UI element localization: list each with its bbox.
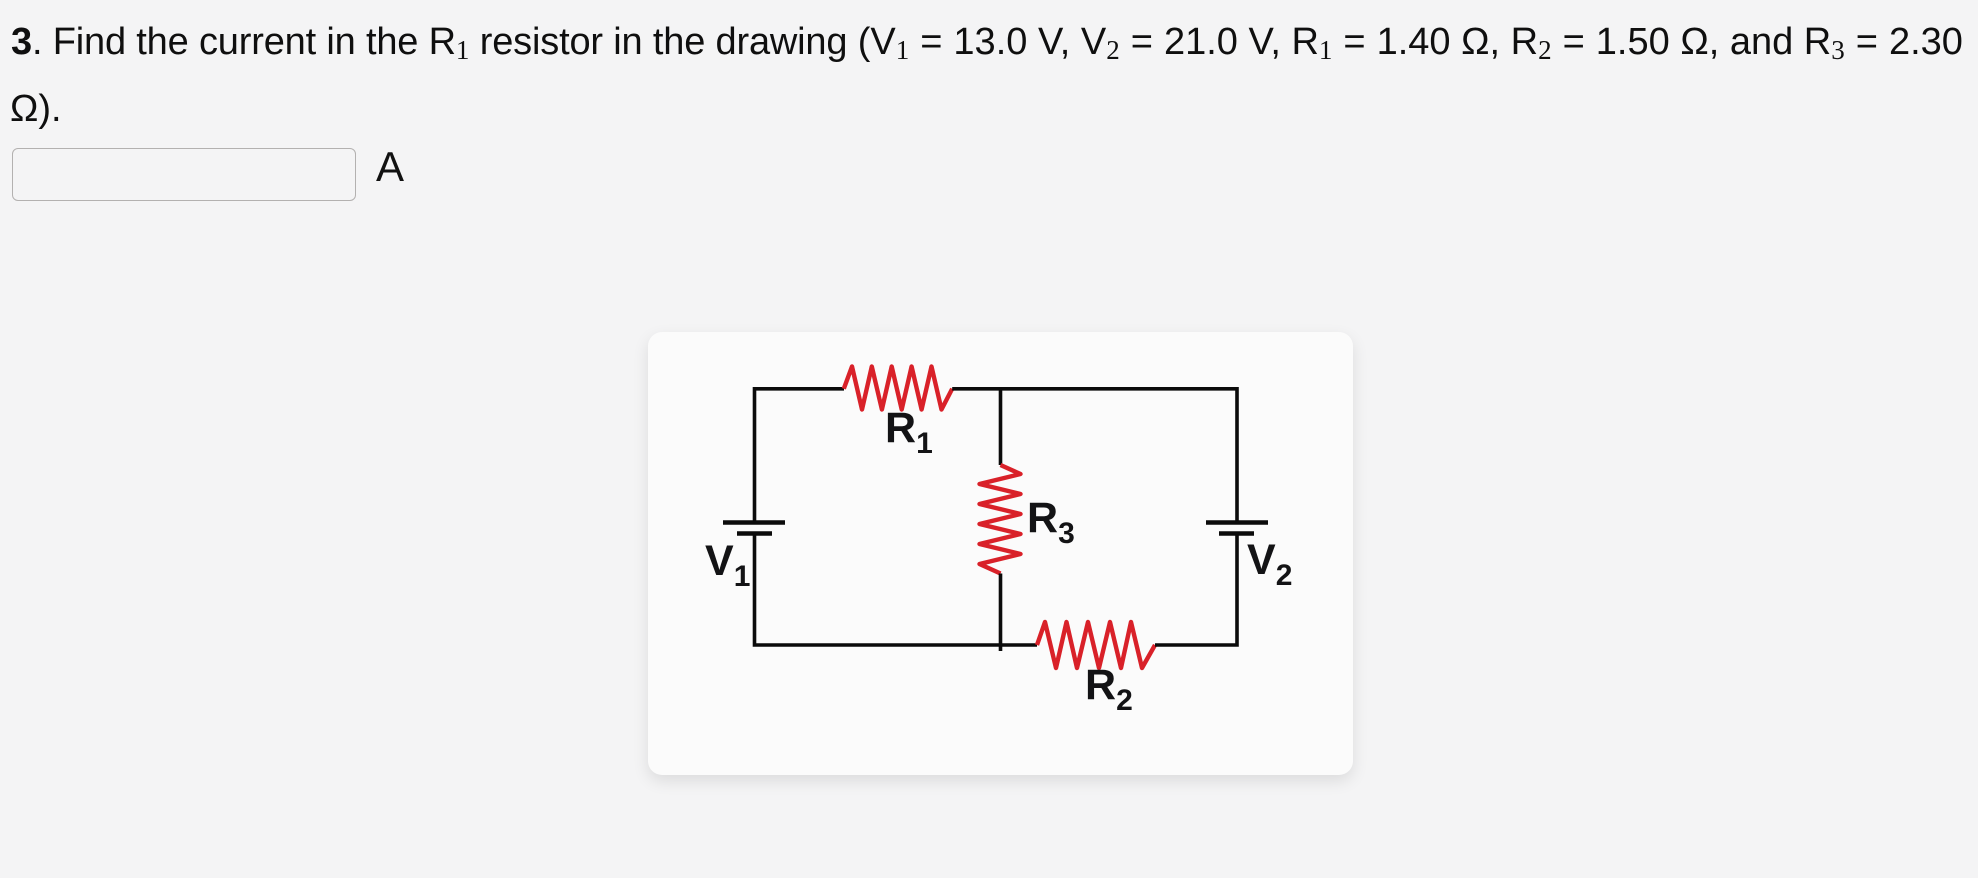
unit label A [376, 143, 404, 191]
question text line 2 [10, 88, 62, 131]
wire: left lower segment [755, 534, 1038, 645]
label V1 [705, 537, 750, 586]
wire: middle branch lower [999, 574, 1003, 652]
wire: top right segment [952, 389, 1237, 521]
question text line 1 [11, 21, 1963, 64]
wire: middle branch upper [999, 389, 1003, 465]
resistor R2 [1037, 622, 1155, 668]
resistor R3 [980, 465, 1021, 574]
wire: top left segment [755, 389, 845, 521]
label R1 [885, 404, 933, 453]
resistor R1 [844, 367, 952, 410]
circuit card [648, 332, 1353, 775]
battery V1 [723, 523, 785, 534]
wire: bottom right segment [1155, 534, 1237, 645]
label R3 [1027, 494, 1075, 543]
label V2 [1247, 536, 1292, 585]
label R2 [1085, 661, 1133, 710]
battery V2 [1206, 523, 1268, 534]
answer input box [12, 148, 356, 201]
